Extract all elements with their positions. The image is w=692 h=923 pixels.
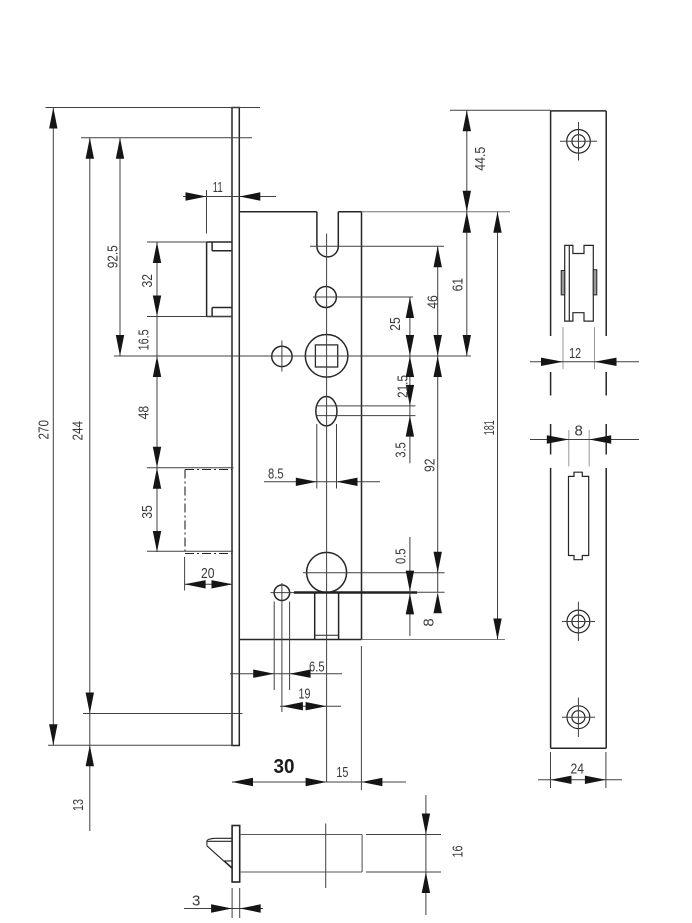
strike plate latch opening left tab [561, 271, 565, 295]
ext line latch head bottom left [147, 316, 232, 318]
dim line 181 [497, 212, 499, 640]
dim line 244 and 13 [89, 138, 91, 831]
dim line 92.5 [119, 138, 121, 356]
arrow 35 bottom [153, 531, 161, 552]
deadbolt head dashed box [185, 470, 233, 554]
main vertical centerline [326, 234, 328, 783]
svg-text:46: 46 [425, 295, 442, 309]
arrow 20 left [185, 580, 206, 588]
svg-text:19: 19 [299, 685, 311, 702]
strike plate screw hole bottom crosshair [562, 698, 595, 738]
ext line 244 bottom [83, 713, 243, 715]
arrow 6.5 left [253, 670, 274, 678]
ext line case bottom to right [362, 639, 506, 641]
svg-text:15: 15 [336, 764, 348, 781]
svg-text:61: 61 [449, 278, 466, 292]
strike plate deadbolt opening [569, 472, 589, 560]
ext lines 3 below flange [232, 888, 240, 918]
strike plate dim line 8 [530, 439, 639, 441]
cylinder bottom tangent heavy line [294, 591, 417, 594]
strike plate screw hole top crosshair [560, 122, 597, 161]
arrow 12 right outside [595, 358, 617, 366]
oval side extension left for 8.5 [316, 424, 318, 489]
arrow 32 top [153, 242, 161, 263]
dim line 11 [183, 196, 276, 198]
arrow 92.5 bottom [116, 335, 124, 356]
arrow 11 left [186, 192, 207, 200]
arrow 270 bottom [49, 724, 57, 745]
strike plate bottom edge [551, 747, 607, 749]
arrow 11 right [239, 192, 260, 200]
bolt detail flange [232, 826, 240, 883]
arrow 3 left [211, 904, 232, 912]
cylinder keyway bottom [315, 634, 339, 636]
arrow 20 right [212, 580, 233, 588]
dim line 44.5 and 61 [466, 110, 468, 356]
dia 6.5 extension right [289, 602, 291, 691]
arrow 13 bottom outside [86, 745, 94, 766]
strike plate latch opening [565, 245, 594, 321]
bolt detail body bottom [240, 871, 362, 873]
latch head top [207, 241, 232, 243]
svg-text:11: 11 [213, 179, 223, 196]
lock case top edge [239, 211, 361, 213]
cylinder centerline horizontal [303, 572, 445, 574]
ext line latch head top left [147, 241, 207, 243]
svg-text:8.5: 8.5 [268, 466, 284, 483]
arrow 0.5 top outside [406, 571, 414, 592]
fixing hole circle [272, 346, 292, 366]
dim line 30 and 15 [232, 781, 406, 783]
svg-text:8: 8 [421, 618, 438, 626]
strike plate screw hole bottom outer [567, 706, 590, 729]
arrow 61 bottom [463, 335, 471, 356]
strike plate screw hole top inner [572, 135, 585, 148]
arrow 16 top outside [422, 814, 430, 835]
arrow plate-8 right outside [589, 435, 611, 443]
arrow 16.5-48 shared up [153, 356, 161, 377]
ext line deadbolt bottom [147, 550, 233, 552]
svg-text:3.5: 3.5 [393, 442, 410, 458]
ext lines 16 right of bolt [366, 835, 441, 873]
arrow 19 right [306, 702, 327, 710]
lock case right edge [361, 212, 363, 640]
svg-text:3: 3 [192, 893, 200, 910]
strike plate 24 ext lines [551, 752, 606, 788]
latch head bottom [207, 316, 232, 318]
arrow 61 top [463, 212, 471, 233]
svg-text:48: 48 [135, 406, 152, 420]
svg-text:92.5: 92.5 [105, 245, 122, 268]
arrow 3.5 bottom outside [406, 416, 414, 437]
bolt detail centerline [325, 824, 327, 889]
dim line 32 16.5 48 35 [156, 242, 158, 552]
bolt detail latch tip left end [207, 838, 215, 846]
follower horizontal centerline [114, 355, 471, 357]
svg-text:181: 181 [481, 420, 498, 435]
arrow plate-8 left outside [547, 435, 569, 443]
svg-text:16.5: 16.5 [135, 329, 152, 350]
arrow 181 top [493, 212, 501, 233]
strike plate dim line 12 [530, 361, 639, 363]
arrow 25 bottom [406, 335, 414, 356]
ext line screw centre top for 244 [81, 137, 252, 139]
arrow 48 bottom [153, 447, 161, 468]
dim line 0.5 [409, 537, 411, 636]
arrow 44.5 top [463, 110, 471, 131]
strike plate 8 ext lines [569, 430, 589, 467]
svg-text:35: 35 [139, 505, 156, 519]
arrow 3 right [240, 904, 261, 912]
arrow 16 bottom outside [422, 872, 430, 893]
arrow 35 top [153, 468, 161, 489]
lower hole horizontal crosshair [271, 592, 295, 594]
latch head upper step [212, 242, 232, 251]
dim line 16 [425, 795, 427, 915]
ext line faceplate top [46, 107, 261, 109]
follower circle [305, 335, 348, 378]
dim line 6.5 [230, 673, 342, 675]
arrow 24 right [585, 776, 606, 784]
latch notch chord line [310, 245, 345, 247]
latch guide hole centerline to dim 25 [313, 296, 413, 298]
strike plate screw hole top outer [567, 130, 591, 154]
strike plate latch opening inner lip line [568, 245, 570, 321]
arrow 244 top [86, 138, 94, 159]
strike plate latch opening right tab [593, 270, 597, 295]
strike plate 12 ext lines [563, 327, 595, 369]
follower square spindle hole [315, 345, 337, 367]
latch notch slot [317, 212, 338, 246]
dim line 3 [184, 908, 263, 910]
arrow 8 bottom outside [434, 592, 442, 613]
arrow 181 bottom [493, 619, 501, 640]
arrow 6.5 right [290, 670, 311, 678]
svg-text:92: 92 [421, 459, 438, 473]
svg-text:13: 13 [70, 799, 87, 811]
arrow 8.5 left [296, 478, 317, 486]
lower hole vertical crosshair and ext for 19 [281, 583, 283, 712]
svg-text:8: 8 [575, 423, 583, 440]
arrow 21.5 bottom [406, 385, 414, 406]
svg-text:24: 24 [571, 760, 585, 777]
arrow 30 left [232, 778, 253, 786]
dim line 19 [280, 705, 341, 707]
lock faceplate [232, 108, 239, 746]
latch notch semicircle [317, 246, 338, 257]
bolt detail latch tip bevel [207, 846, 232, 869]
strike plate screw hole mid outer [567, 610, 590, 633]
svg-text:21.5: 21.5 [395, 375, 412, 398]
ext line 15 right [360, 646, 362, 790]
arrow 25 top [406, 297, 414, 318]
bolt detail latch tip lip [207, 838, 232, 841]
arrow 46 top [434, 246, 442, 267]
oval lower line B [316, 415, 416, 417]
svg-text:25: 25 [387, 317, 404, 331]
arrow 8.5 right [337, 478, 358, 486]
strike plate top edge [551, 110, 607, 112]
arrow 270 top [49, 108, 57, 129]
ext line 44.5 top at plate level [450, 109, 551, 111]
dim line 46 and 92 and 8 [437, 246, 439, 592]
arrow 46 bottom [434, 335, 442, 356]
svg-text:32: 32 [139, 274, 156, 288]
ext line faceplate bottom [48, 744, 233, 746]
arrow 24 left [551, 776, 572, 784]
svg-text:16: 16 [450, 846, 467, 858]
latch guide hole circle [315, 287, 336, 308]
dim line 25 21.5 3.5 [409, 297, 411, 463]
strike plate dim line 24 [538, 779, 622, 781]
cylinder hole circle [307, 552, 347, 592]
arrow 15 right outside [361, 778, 382, 786]
dim line 20 [185, 583, 233, 585]
strike plate screw hole mid inner [572, 615, 585, 628]
arrow 19 left [282, 702, 303, 710]
arrow 244 bottom [86, 693, 94, 714]
svg-text:30: 30 [274, 756, 295, 778]
ext line deadbolt top [147, 467, 234, 469]
bolt detail body right edge [361, 835, 363, 873]
svg-text:270: 270 [36, 420, 53, 440]
svg-text:20: 20 [201, 565, 215, 582]
latch head lower step [212, 308, 232, 317]
cylinder lower hole circle [274, 585, 290, 601]
arrow 12 left outside [541, 358, 563, 366]
bolt detail latch tip inner step [224, 861, 232, 868]
strike plate left edge [550, 111, 552, 748]
arrow 30 right [306, 778, 327, 786]
oval side extension right for 8.5 [336, 424, 338, 489]
arrow 0.5 bottom outside [406, 593, 414, 614]
fixing hole vertical crosshair [281, 341, 283, 372]
cylinder tangent line thin extension [417, 591, 445, 593]
ext line 11 left [206, 190, 208, 234]
arrow 92 bottom [434, 552, 442, 573]
arrow 92 top [434, 356, 442, 377]
ext line case top to right [362, 211, 511, 213]
oval guide hole [316, 397, 337, 426]
svg-text:12: 12 [569, 345, 581, 362]
dia 6.5 extension left [273, 602, 275, 691]
ext line 20 left [184, 557, 186, 591]
oval upper line A [316, 405, 416, 407]
latch head left edge [206, 242, 208, 317]
dim line 8.5 [264, 481, 380, 483]
svg-text:244: 244 [69, 421, 86, 441]
bolt detail body top [240, 834, 362, 836]
lock case bottom edge [239, 639, 361, 641]
svg-text:0.5: 0.5 [392, 549, 409, 565]
strike plate right edge [605, 111, 607, 748]
svg-text:44.5: 44.5 [472, 147, 489, 171]
arrow 44.5 bottom [463, 191, 471, 212]
svg-text:6.5: 6.5 [309, 658, 325, 675]
latch centerline extension to dim 46 [345, 245, 445, 247]
arrow 21.5 top [406, 356, 414, 377]
arrow 32 bottom [153, 296, 161, 317]
dim line 270 [52, 108, 54, 746]
cylinder keyway sides [315, 592, 339, 639]
strike plate screw hole mid crosshair [562, 602, 595, 641]
arrow 92.5 top [116, 138, 124, 159]
strike plate screw hole bottom inner [572, 711, 585, 724]
